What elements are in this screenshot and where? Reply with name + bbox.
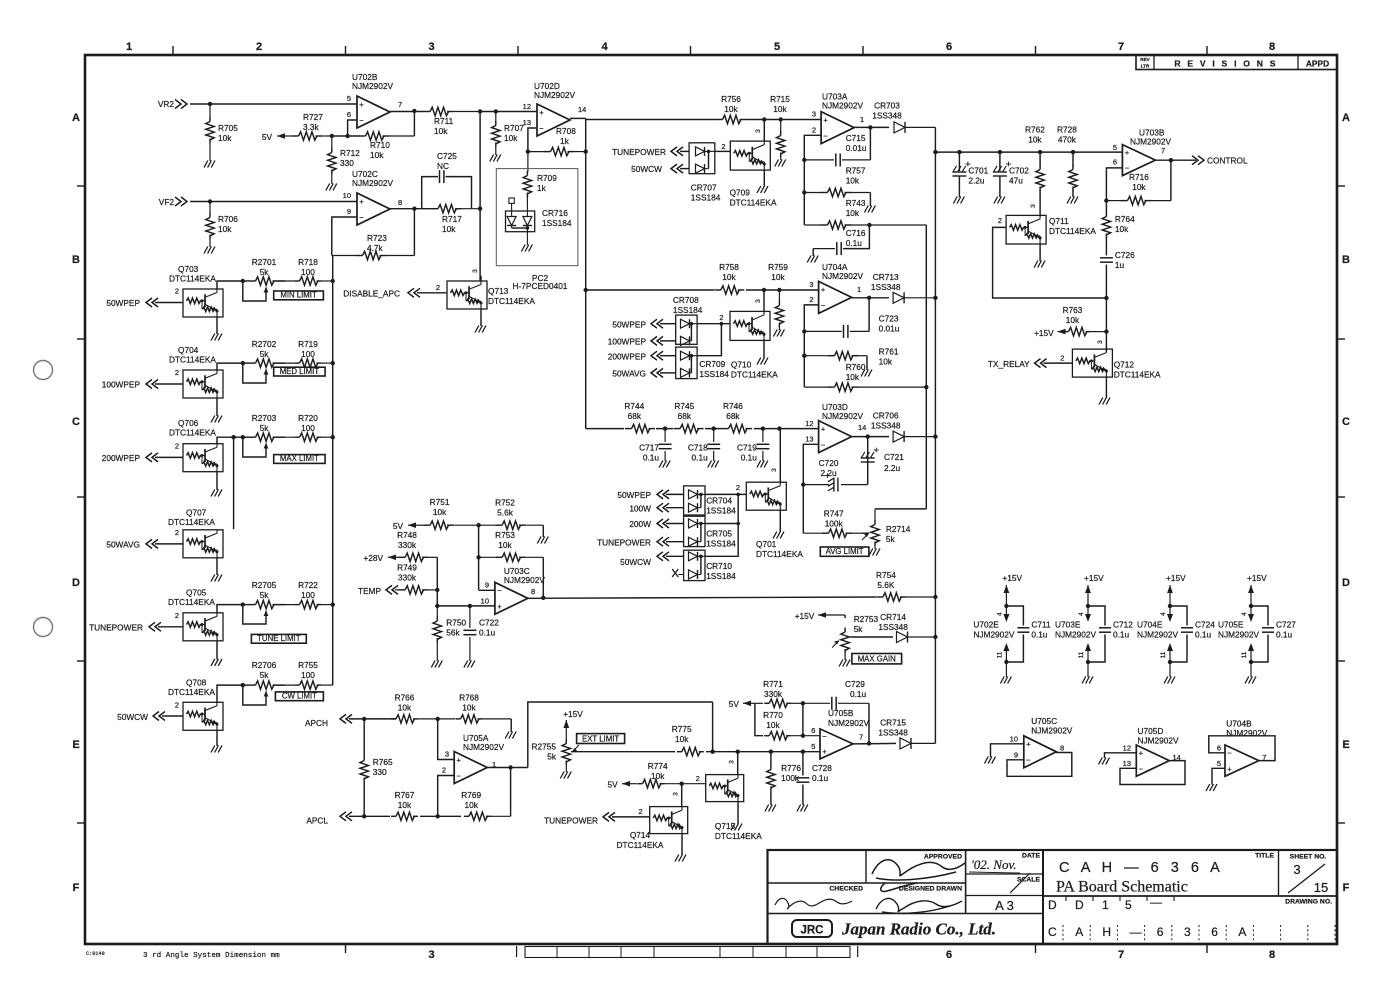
port 100WPEP — [102, 368, 183, 390]
wire U703A pin2 loop — [804, 135, 821, 225]
svg-text:5: 5 — [347, 94, 351, 103]
svg-text:47u: 47u — [1009, 176, 1023, 186]
resistor R776 — [767, 752, 802, 805]
wire R2753 wiper to CR714 — [850, 636, 893, 638]
svg-text:R2705: R2705 — [252, 580, 277, 590]
svg-text:15: 15 — [1314, 880, 1328, 895]
svg-text:200WPEP: 200WPEP — [608, 351, 647, 361]
svg-text:DTC114EKA: DTC114EKA — [1114, 370, 1161, 380]
bottom margin scale bar — [525, 947, 850, 958]
svg-text:Q705: Q705 — [186, 588, 207, 598]
svg-text:R745: R745 — [674, 401, 694, 411]
svg-text:CR710: CR710 — [706, 561, 732, 571]
svg-text:C: C — [72, 416, 80, 428]
op-amp U702B — [347, 72, 402, 128]
svg-text:8: 8 — [398, 198, 402, 207]
svg-text:0.01u: 0.01u — [879, 324, 900, 334]
svg-text:CR706: CR706 — [873, 411, 899, 421]
svg-text:C717: C717 — [639, 443, 659, 453]
svg-text:APCH: APCH — [305, 718, 328, 728]
svg-text:10k: 10k — [218, 133, 232, 143]
svg-text:R723: R723 — [367, 233, 387, 243]
svg-text:CR716: CR716 — [542, 208, 568, 218]
svg-text:10k: 10k — [398, 800, 412, 810]
dual diode CR704 — [684, 486, 737, 516]
svg-text:10k: 10k — [1115, 224, 1129, 234]
svg-text:5.6K: 5.6K — [877, 580, 895, 590]
port TX_RELAY — [988, 354, 1073, 369]
node CR713 bus D — [933, 296, 937, 300]
svg-text:6: 6 — [1217, 744, 1221, 753]
node APCL pin2 — [436, 814, 440, 818]
svg-text:C724: C724 — [1195, 620, 1215, 630]
svg-text:50WAVG: 50WAVG — [612, 369, 646, 379]
svg-text:9: 9 — [1014, 751, 1018, 760]
svg-text:6: 6 — [946, 41, 952, 53]
svg-text:C: C — [1342, 416, 1350, 428]
svg-text:CONTROL: CONTROL — [1207, 156, 1248, 166]
svg-text:C726: C726 — [1115, 250, 1135, 260]
svg-text:2: 2 — [696, 774, 700, 783]
capacitor C702 polarized — [993, 152, 1029, 197]
svg-text:2: 2 — [175, 611, 179, 620]
svg-text:3: 3 — [673, 792, 680, 796]
node R760 left — [802, 354, 806, 358]
ground Q704 — [211, 398, 222, 423]
svg-text:TUNE LIMIT: TUNE LIMIT — [257, 634, 301, 643]
svg-text:R765: R765 — [373, 757, 393, 767]
svg-text:Q701: Q701 — [756, 539, 777, 549]
svg-text:7: 7 — [1118, 41, 1124, 53]
transistor Q705 — [168, 588, 223, 641]
node U703A output C715 — [868, 125, 872, 129]
node R763 Q712 — [1104, 329, 1108, 333]
svg-text:DTC114EKA: DTC114EKA — [488, 296, 535, 306]
svg-text:5k: 5k — [260, 267, 270, 277]
svg-text:MIN LIMIT: MIN LIMIT — [280, 291, 317, 300]
svg-text:R707: R707 — [504, 123, 524, 133]
port 100WPEP mid — [608, 336, 676, 346]
svg-text:AVG LIMIT: AVG LIMIT — [826, 547, 864, 556]
designed drawn signature — [876, 898, 962, 913]
node U705A output — [508, 765, 512, 769]
ground CR716 — [521, 232, 532, 252]
svg-text:10k: 10k — [675, 734, 689, 744]
svg-text:10k: 10k — [879, 357, 893, 367]
svg-text:+15V: +15V — [563, 709, 583, 719]
svg-text:CR703: CR703 — [874, 101, 900, 111]
ground Q703 — [211, 317, 222, 341]
resistor R768 — [438, 693, 512, 724]
node R766 R768 — [436, 717, 440, 721]
port 50WPEP lower — [617, 490, 683, 500]
svg-text:10k: 10k — [766, 720, 780, 730]
label box MAX GAIN — [852, 654, 902, 664]
svg-text:10: 10 — [343, 191, 351, 200]
node R708 bus B — [584, 149, 588, 153]
node C717 top — [663, 426, 667, 430]
svg-text:+: + — [821, 285, 826, 294]
rail 5V R774 — [608, 780, 637, 790]
svg-text:+: + — [457, 755, 462, 764]
node pin10 row R750 — [435, 604, 439, 608]
svg-text:+: + — [497, 602, 502, 611]
svg-text:Q707: Q707 — [186, 508, 207, 518]
svg-text:5k: 5k — [260, 670, 270, 680]
resistor R762 — [1025, 125, 1045, 216]
ground C716 — [807, 256, 811, 263]
svg-text:Q709: Q709 — [730, 188, 751, 198]
node C701 top — [957, 150, 961, 154]
svg-text:Japan Radio Co., Ltd.: Japan Radio Co., Ltd. — [841, 920, 996, 939]
ground Q710 emitter — [757, 340, 768, 364]
svg-text:10k: 10k — [462, 703, 476, 713]
svg-text:R710: R710 — [370, 140, 390, 150]
resistor R719 — [274, 339, 333, 367]
svg-text:1SS184: 1SS184 — [673, 305, 703, 315]
label box CW LIMIT — [275, 692, 323, 701]
svg-text:LTR: LTR — [1141, 64, 1150, 69]
wire R751 node to R753 row — [478, 525, 480, 590]
svg-text:5: 5 — [811, 742, 815, 751]
bus D vertical APC summing bus — [934, 127, 936, 743]
svg-text:4: 4 — [1078, 612, 1085, 616]
svg-text:+: + — [821, 424, 826, 433]
wire U704A output — [852, 297, 889, 299]
svg-text:C702: C702 — [1009, 166, 1029, 176]
svg-text:10k: 10k — [498, 540, 512, 550]
wire U705A output — [487, 767, 528, 769]
wire Q711 pin2 loop — [993, 227, 1107, 298]
svg-text:R706: R706 — [218, 214, 238, 224]
svg-text:R762: R762 — [1025, 125, 1045, 135]
capacitor C717 — [639, 429, 671, 463]
svg-text:10k: 10k — [651, 771, 665, 781]
node R2702 left — [241, 361, 245, 365]
svg-text:R717: R717 — [442, 214, 462, 224]
label R761 — [879, 347, 899, 367]
checked signature — [775, 898, 852, 909]
svg-text:7: 7 — [1118, 949, 1124, 961]
svg-text:5V: 5V — [729, 699, 740, 709]
svg-text:10k: 10k — [370, 150, 384, 160]
svg-text:5k: 5k — [260, 423, 270, 433]
svg-text:R747: R747 — [824, 509, 844, 519]
svg-text:C715: C715 — [846, 133, 866, 143]
svg-text:NJM2902V: NJM2902V — [352, 178, 394, 188]
svg-text:DTC114EKA: DTC114EKA — [1049, 226, 1096, 236]
svg-text:100W: 100W — [629, 503, 651, 513]
svg-text:1: 1 — [860, 115, 864, 124]
resistor R746 — [722, 401, 754, 435]
node R707 top — [494, 109, 498, 113]
svg-text:Q704: Q704 — [178, 345, 199, 355]
op-amp power pins U704E with capacitor C724 — [1137, 573, 1215, 684]
label box AVG LIMIT — [820, 547, 869, 556]
svg-text:0.1u: 0.1u — [850, 689, 867, 699]
port 50WAVG mid — [612, 368, 675, 378]
svg-text:10k: 10k — [722, 272, 736, 282]
diode CR714 — [878, 612, 935, 643]
svg-text:R705: R705 — [218, 123, 238, 133]
svg-text:NJM2902V: NJM2902V — [1218, 630, 1260, 640]
svg-text:Q713: Q713 — [488, 286, 509, 296]
svg-text:D: D — [1342, 577, 1350, 589]
svg-text:56k: 56k — [446, 628, 460, 638]
svg-text:13: 13 — [805, 435, 813, 444]
svg-text:TUNEPOWER: TUNEPOWER — [89, 623, 143, 633]
svg-text:11: 11 — [1078, 651, 1085, 658]
node R2701 left — [241, 279, 245, 283]
svg-text:NJM2902V: NJM2902V — [1055, 630, 1097, 640]
svg-text:5: 5 — [774, 41, 780, 53]
svg-text:−: − — [539, 124, 544, 133]
svg-text:U705E: U705E — [1218, 620, 1244, 630]
wire U703A output — [854, 126, 889, 128]
ground Q715 — [731, 802, 742, 831]
svg-text:U705D: U705D — [1138, 726, 1164, 736]
svg-text:11: 11 — [1241, 651, 1248, 658]
svg-text:1: 1 — [126, 41, 132, 53]
svg-text:C722: C722 — [479, 618, 499, 628]
port CONTROL — [1192, 156, 1248, 166]
svg-text:DTC114EKA: DTC114EKA — [731, 370, 778, 380]
resistor R722 — [274, 580, 333, 609]
svg-text:8: 8 — [1269, 41, 1275, 53]
svg-text:100: 100 — [301, 423, 315, 433]
svg-text:+: + — [822, 747, 827, 756]
svg-text:U704E: U704E — [1137, 620, 1163, 630]
svg-text:U704B: U704B — [1226, 719, 1252, 729]
svg-text:100WPEP: 100WPEP — [608, 337, 647, 347]
wire U704A pin2 loop — [804, 305, 818, 387]
svg-text:DTC114EKA: DTC114EKA — [169, 428, 216, 438]
wire U703B pin6 loop — [1106, 168, 1122, 201]
svg-text:6: 6 — [1157, 925, 1164, 939]
svg-text:3: 3 — [729, 760, 736, 764]
node C723 left — [802, 329, 806, 333]
svg-text:R769: R769 — [461, 790, 481, 800]
svg-text:CR708: CR708 — [673, 295, 699, 305]
label box TUNE LIMIT — [251, 634, 306, 643]
node R717 bus A — [478, 207, 482, 211]
svg-text:C729: C729 — [845, 679, 865, 689]
svg-text:10k: 10k — [398, 703, 412, 713]
transistor Q707 — [168, 508, 223, 558]
svg-text:A: A — [1075, 925, 1083, 939]
svg-text:R718: R718 — [298, 257, 318, 267]
svg-text:DTC114EKA: DTC114EKA — [715, 831, 762, 841]
svg-text:DTC114EKA: DTC114EKA — [168, 517, 215, 527]
svg-text:5k: 5k — [260, 590, 270, 600]
capacitor C728 — [796, 752, 832, 805]
svg-text:'02. Nov.: '02. Nov. — [971, 857, 1017, 872]
svg-text:330: 330 — [340, 158, 354, 168]
svg-text:4.7k: 4.7k — [367, 243, 384, 253]
svg-text:10k: 10k — [1066, 315, 1080, 325]
svg-text:C701: C701 — [968, 166, 988, 176]
svg-text:R708: R708 — [556, 126, 576, 136]
resistor R752 — [479, 498, 544, 530]
svg-text:NJM2902V: NJM2902V — [534, 90, 576, 100]
rail +15V R2753 — [795, 611, 845, 621]
resistor R769 — [461, 768, 510, 821]
capacitor C726 — [1100, 250, 1135, 332]
svg-text:68k: 68k — [726, 411, 740, 421]
svg-text:R711: R711 — [434, 116, 454, 126]
rail 5V feed — [262, 132, 285, 142]
dual diode CR705 — [684, 516, 737, 548]
svg-text:JRC: JRC — [800, 925, 823, 937]
svg-text:50WCW: 50WCW — [620, 557, 651, 567]
svg-text:NC: NC — [437, 161, 449, 171]
wire U703D pin13 loop — [803, 444, 818, 533]
label box EXT LIMIT — [577, 734, 625, 744]
svg-text:CR705: CR705 — [706, 529, 732, 539]
wire U703C output row to R754 — [528, 597, 880, 598]
node Q701 collector row — [777, 426, 781, 430]
node Q710 collector — [762, 288, 766, 292]
transistor Q713 — [447, 281, 535, 309]
svg-text:R775: R775 — [672, 724, 692, 734]
port VR2 — [158, 99, 187, 109]
resistor R717 — [432, 205, 481, 235]
svg-text:CR715: CR715 — [880, 718, 906, 728]
svg-text:3 rd Angle System Dimension m: 3 rd Angle System Dimension mm — [143, 952, 280, 960]
svg-text:B: B — [1342, 254, 1350, 266]
svg-text:F: F — [1343, 882, 1350, 894]
svg-text:−: − — [1026, 756, 1031, 765]
svg-text:CR714: CR714 — [880, 612, 906, 622]
wire Q715 collector — [729, 752, 738, 775]
trimmer R2702 — [243, 339, 285, 383]
node R718 bus C — [331, 279, 335, 283]
ground R706 — [204, 247, 208, 254]
resistor R771 — [754, 679, 803, 708]
resistor R757 — [804, 166, 870, 207]
svg-text:MAX GAIN: MAX GAIN — [858, 655, 896, 664]
wire ext vertical — [712, 702, 714, 752]
svg-text:10k: 10k — [771, 272, 785, 282]
ground R776 — [765, 805, 769, 812]
svg-text:NJM2902V: NJM2902V — [822, 411, 864, 421]
svg-text:+: + — [1026, 740, 1031, 749]
trimmer R2705 — [243, 580, 285, 624]
svg-text:−: − — [457, 771, 462, 780]
svg-text:4: 4 — [1160, 612, 1167, 616]
node R2706 left — [241, 683, 245, 687]
svg-text:0.1u: 0.1u — [1113, 630, 1130, 640]
ground C702 — [994, 197, 998, 204]
bus B vertical — [585, 118, 587, 428]
svg-text:VR2: VR2 — [158, 99, 175, 109]
svg-text:50WCW: 50WCW — [117, 712, 148, 722]
resistor R766 — [391, 693, 438, 724]
resistor R707 — [492, 112, 525, 156]
port 50WAVG — [106, 528, 183, 550]
svg-text:10k: 10k — [846, 208, 860, 218]
grid column ticks bottom — [346, 944, 1208, 957]
svg-text:10k: 10k — [846, 176, 860, 186]
svg-text:68k: 68k — [678, 411, 692, 421]
transistor Q714 — [617, 807, 688, 850]
svg-text:3: 3 — [812, 110, 816, 119]
capacitor C715 — [804, 127, 870, 166]
svg-text:NJM2902V: NJM2902V — [822, 101, 864, 111]
svg-text:DTC114EKA: DTC114EKA — [168, 687, 215, 697]
port 50WCW lower — [620, 552, 683, 567]
svg-text:2: 2 — [175, 368, 179, 377]
node U704A output — [867, 296, 871, 300]
wire Q713 emitter to ground — [475, 309, 486, 333]
ground Q714 — [675, 834, 686, 862]
resistor R708 feedback — [528, 126, 586, 156]
svg-text:3: 3 — [755, 299, 762, 303]
ground R750 — [431, 661, 435, 668]
svg-text:3: 3 — [1184, 925, 1191, 939]
punch hole upper — [34, 361, 53, 380]
svg-text:2: 2 — [436, 283, 440, 292]
ground Q707 — [211, 558, 222, 582]
svg-text:R776: R776 — [781, 763, 801, 773]
svg-text:1SS184: 1SS184 — [699, 369, 729, 379]
svg-text:+15V: +15V — [795, 611, 815, 621]
svg-text:TUNEPOWER: TUNEPOWER — [612, 147, 666, 157]
node R771 C729 — [801, 701, 805, 705]
svg-text:2: 2 — [256, 41, 262, 53]
svg-text:APPROVED: APPROVED — [924, 854, 962, 861]
node R2705 left — [241, 602, 245, 606]
svg-text:D: D — [1048, 898, 1057, 912]
label U703C texts — [481, 581, 536, 606]
svg-text:+15V: +15V — [1166, 573, 1186, 583]
svg-text:R752: R752 — [495, 498, 515, 508]
svg-text:H: H — [1102, 925, 1111, 939]
node R759 top — [777, 288, 781, 292]
revisions header bar — [1136, 55, 1337, 70]
svg-text:R709: R709 — [537, 173, 557, 183]
ground Q711 emitter — [1034, 244, 1045, 268]
transistor Q701 — [746, 482, 803, 559]
ground R757 — [864, 206, 868, 213]
node C718 top — [712, 426, 716, 430]
wire Q714 collector — [673, 784, 682, 807]
svg-text:0.01u: 0.01u — [846, 143, 867, 153]
node Q707 collector row — [231, 435, 235, 439]
rail +28V — [363, 553, 396, 563]
svg-text:2: 2 — [1060, 354, 1064, 363]
svg-text:Q715: Q715 — [715, 821, 736, 831]
svg-text:12: 12 — [805, 419, 813, 428]
svg-text:CW LIMIT: CW LIMIT — [282, 692, 317, 701]
svg-text:330k: 330k — [398, 573, 417, 583]
svg-text:+28V: +28V — [363, 553, 383, 563]
svg-text:5: 5 — [1217, 759, 1221, 768]
svg-text:7: 7 — [859, 733, 863, 742]
svg-text:2.2u: 2.2u — [968, 176, 985, 186]
svg-text:4: 4 — [601, 41, 608, 53]
svg-text:R768: R768 — [459, 693, 479, 703]
op-amp U703B — [1122, 128, 1171, 176]
svg-text:+: + — [359, 100, 364, 109]
svg-text:50WPEP: 50WPEP — [617, 490, 651, 500]
svg-text:−: − — [1227, 749, 1232, 758]
wire row U703D input — [586, 428, 819, 430]
svg-text:12: 12 — [1123, 744, 1131, 753]
ground R759 — [773, 330, 777, 337]
node VF2-R706 — [208, 199, 212, 203]
grid row ticks left and right — [77, 186, 1345, 823]
